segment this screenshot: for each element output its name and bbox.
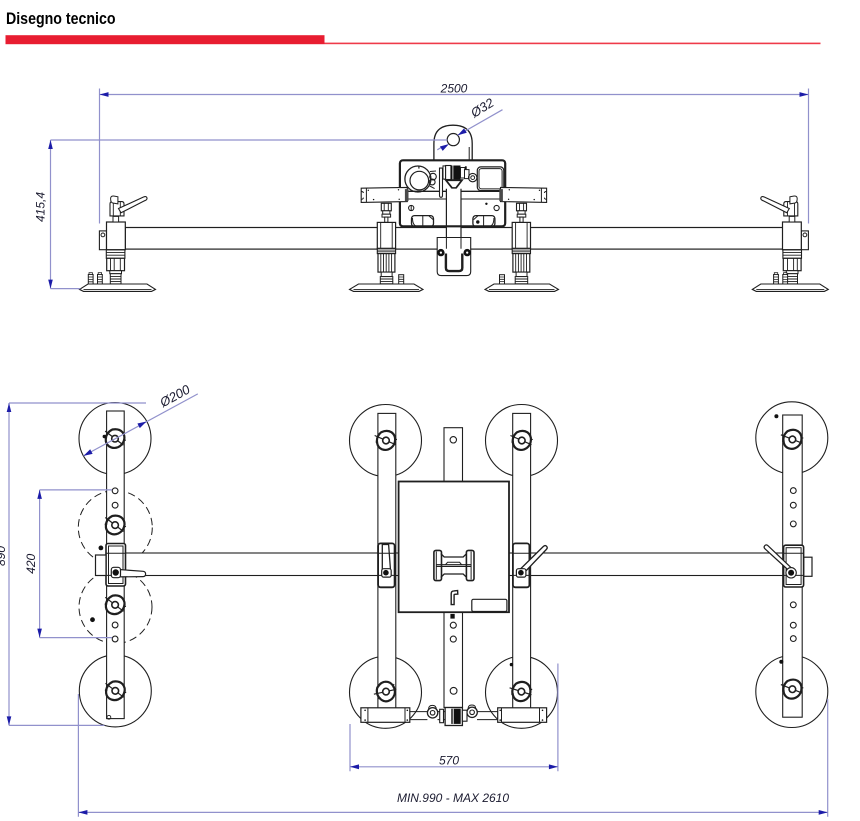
red title bar (6, 35, 325, 44)
turnbuckle rods (410, 712, 498, 720)
solenoid valve (black) (451, 166, 461, 180)
svg-text:2500: 2500 (440, 82, 468, 96)
dashed alternate cup position upper (78, 491, 152, 565)
left eye ring (427, 708, 437, 718)
dim MIN.990 - MAX 2610 (78, 694, 827, 817)
stirrup bolts (437, 249, 444, 256)
housing internal shelf lines (401, 190, 504, 192)
lifting eye plate (434, 125, 472, 162)
svg-text:420: 420 (24, 553, 38, 573)
suction cup midleft-bottom (350, 656, 422, 728)
central bar lower holes (450, 622, 456, 628)
dim 420 (40, 490, 112, 638)
gauge double circle (469, 173, 477, 181)
main beam (plan) (125, 553, 785, 576)
left tub (412, 216, 434, 227)
bottom spreader bar right (498, 708, 547, 723)
right torque arm (501, 187, 547, 202)
small fixing dots (99, 546, 104, 551)
lifting eye inner edge (468, 147, 470, 161)
housing body fill (400, 160, 505, 226)
pump side bracket rings (430, 173, 437, 180)
suction cup midleft-top (350, 405, 422, 477)
lower housing small circles (409, 205, 414, 210)
suction cup right-bottom (756, 656, 828, 728)
vertical rod (440, 168, 443, 197)
funnel (446, 180, 462, 188)
I-beam symbol right flange (466, 550, 474, 580)
central turnbuckle housing (445, 708, 462, 726)
suction cup midright-bottom (486, 656, 558, 728)
I-beam symbol left flange (434, 550, 442, 580)
right reservoir rounded box (477, 167, 504, 191)
vacuum pump outer circle (405, 166, 431, 192)
central lifting bar (446, 189, 461, 238)
black mark under box (450, 614, 454, 619)
leader Ø32 (437, 110, 502, 150)
clamp midright rail (513, 543, 547, 587)
dim 2500 line (100, 89, 809, 224)
housing border (400, 160, 505, 226)
valve block plates (443, 166, 446, 179)
eye hole Ø32 (447, 134, 459, 146)
clamp midleft rail (378, 543, 395, 587)
svg-text:415,4: 415,4 (34, 192, 48, 222)
right tub (473, 216, 495, 227)
U stirrup (446, 254, 462, 272)
suction cup right-top (756, 402, 828, 474)
central bar top hole (450, 437, 456, 443)
suction cup midright-top (486, 405, 558, 477)
leader Ø200 (84, 394, 198, 456)
suction cup left-bottom (79, 655, 151, 727)
rail left holes (112, 488, 118, 494)
vacuum pump inner circle (410, 171, 429, 190)
dim 890 (9, 403, 146, 725)
svg-text:MIN.990 - MAX 2610: MIN.990 - MAX 2610 (397, 791, 509, 805)
svg-text:890: 890 (0, 546, 8, 566)
right mid suction assembly (485, 203, 559, 291)
I-beam web (436, 554, 471, 578)
rail right holes (790, 488, 796, 494)
pump top tick (418, 166, 420, 168)
suction cup left-top (79, 403, 151, 475)
right end clamp and foot (752, 196, 828, 291)
label plate (472, 599, 507, 611)
stirrup carrier plate (437, 238, 471, 276)
right eye ring (467, 707, 477, 717)
svg-text:570: 570 (439, 754, 459, 768)
clamp left rail (96, 544, 146, 587)
left mid suction assembly (350, 203, 424, 291)
svg-text:Disegno tecnico: Disegno tecnico (6, 10, 116, 28)
central bar (plan) (444, 428, 463, 708)
handle pictogram r (451, 591, 458, 605)
right fittings (461, 168, 465, 179)
left end clamp and foot (80, 196, 156, 291)
rail right (783, 415, 803, 717)
left torque arm (361, 187, 407, 202)
main beam (front view) (125, 228, 784, 250)
thin red rule (325, 43, 821, 45)
dim 415,4 (51, 140, 448, 289)
vacuum unit box (399, 482, 509, 613)
trefoil brackets (105, 429, 126, 448)
bottom spreader bar left (361, 708, 410, 723)
clamp right rail (764, 545, 812, 587)
dashed alternate cup position lower (79, 571, 152, 644)
rail midleft (378, 413, 396, 709)
dim 570 (350, 664, 558, 772)
rail left (107, 411, 125, 719)
rail midright (513, 413, 531, 709)
